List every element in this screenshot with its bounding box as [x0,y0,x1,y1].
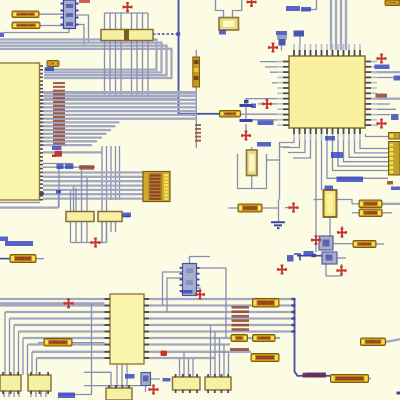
wire [9,319,11,376]
wire [0,202,40,204]
wire [329,217,331,236]
net label JTAG [337,177,364,183]
wire [151,378,161,380]
wire [4,312,6,375]
pin text [387,181,393,185]
wire [70,191,72,212]
crystal Y1 [219,18,239,31]
red text [79,0,90,3]
wire bus row [0,302,105,304]
wire [40,25,64,27]
wire [73,186,75,212]
transistor Q1 [319,236,333,250]
net label [276,31,287,35]
wire [119,146,121,200]
wire [81,170,83,212]
no-ERC marker X7 [377,119,385,127]
wire [126,364,128,388]
wire [115,13,117,95]
wire [179,0,220,114]
net label [0,385,10,390]
no-ERC marker X14 [64,299,72,307]
label N2 [231,335,248,342]
wire [81,222,83,243]
inductor L1 [220,111,241,118]
wire [167,278,183,312]
component A1 [61,0,79,29]
net label [56,190,61,194]
wire [36,258,44,260]
capacitor C2 [294,31,305,37]
junction red X15 [161,351,168,357]
wire [245,107,247,119]
wire [341,226,343,238]
wire [382,212,392,214]
resistor pack RP3 [66,212,94,222]
resistor R11 [193,57,200,87]
wire [241,113,284,115]
wire [223,345,225,378]
resistor R2 [12,22,40,29]
label N3 [253,335,276,342]
wire [345,0,347,50]
resistor R6 [359,200,382,208]
IC U1 [0,63,40,200]
net label XTAL [258,121,274,126]
resistor R4 [44,339,72,347]
wire [192,358,194,377]
no-ERC marker X12 [312,236,320,244]
wire bus row [150,317,295,319]
label N4 [251,354,279,362]
net label [219,30,226,35]
wire [366,134,389,137]
wire [163,272,183,306]
resistor pack RP1 [101,30,127,41]
wire [38,342,44,344]
wire [18,332,20,376]
wire bus L3 [0,46,167,75]
wire [197,288,201,299]
wire bus row [43,125,116,127]
wire [279,142,281,200]
wire [386,339,400,342]
wire [31,352,33,375]
wire [326,264,342,276]
wire bus row [43,121,120,123]
wire [338,134,389,166]
wire [278,200,280,222]
wire [43,163,73,165]
wire bus row [43,136,102,138]
pin numbers bus [195,124,201,142]
wire [299,37,301,57]
resistor R3 [10,255,36,263]
resistor R10 [331,375,369,383]
wire [295,299,331,376]
wire bus [44,97,178,99]
wire [314,199,324,201]
wire [120,13,122,95]
wire bus row [43,95,196,97]
no-ERC marker X1 [247,0,255,6]
wire [287,258,290,260]
wire [86,178,88,212]
label N5 [385,0,400,6]
wire [0,258,10,260]
net label [0,33,4,38]
wire bus row [150,343,230,345]
component B3 [106,385,132,400]
IC U3 [110,294,144,364]
wire [293,134,311,158]
wire [245,120,247,122]
wire bus row [43,151,102,153]
wire bus L1 [0,40,157,70]
wire [228,352,230,377]
wire [106,222,108,243]
wire bus row [23,337,105,339]
net label [163,378,171,382]
wire [30,391,32,397]
capacitor C4 [279,39,286,46]
component B4 [173,374,201,393]
wire [369,378,372,380]
wire [371,124,378,126]
wire [18,391,20,397]
crystal Y2 [247,150,258,176]
net label [5,241,33,246]
wire [245,124,247,132]
wire [27,345,29,376]
wire [302,0,317,10]
wire [371,103,390,105]
wire [115,146,117,200]
wire [297,255,322,257]
net name [303,373,326,378]
resistor R8 [353,241,376,248]
pin text [79,165,94,170]
wire [195,50,197,57]
capacitor C1 [240,104,253,107]
connector J2b [389,142,400,176]
wire bus row [43,106,196,108]
wire [352,203,359,205]
wire [288,134,305,153]
wire bus row [43,193,143,195]
wire [106,146,108,243]
wire [179,358,181,377]
net label [391,114,399,120]
wire [376,243,384,245]
label N6 [47,61,59,67]
wire bus row [5,311,105,313]
no-ERC marker X13 [337,266,345,274]
wire [371,114,390,116]
wire [115,222,117,233]
wire bus row [43,114,196,116]
wire bus row [14,324,105,326]
wire [122,216,130,218]
wire [190,257,211,264]
wire [104,13,106,95]
net label [394,76,400,81]
wire [91,303,93,385]
wire [71,242,107,244]
IC U1 pins [40,65,43,200]
wire [214,332,216,378]
wire [233,0,242,18]
resistor R9 [361,338,386,346]
junction dot [244,100,249,104]
wire [0,206,59,208]
resistor R1 [12,11,39,18]
wire [260,61,283,63]
IC U3 pins [105,298,150,359]
no-ERC marker X6 [242,131,250,139]
no-ERC marker X17 [149,385,157,393]
wire [285,207,291,209]
net label [325,136,335,141]
component QA [180,264,200,296]
wire bus L2 [0,43,162,73]
wire bus row [43,140,97,142]
wire [195,87,197,148]
wire [333,134,389,171]
wire bus [44,92,196,94]
wire [315,134,317,252]
wire [86,222,88,243]
junction dot [312,254,317,258]
net label [286,6,300,11]
wire [36,358,38,375]
wire [267,159,280,161]
wire [101,146,103,243]
net label [251,104,256,109]
net label [306,373,326,378]
wire [127,11,129,14]
junction red X8 [55,151,63,157]
net label [58,393,75,399]
pin numbers U1 [53,82,65,145]
capacitor C5 [324,190,337,217]
wire [245,99,247,104]
wire [335,0,337,50]
wire bus row [19,330,105,332]
label N1 [253,299,280,308]
wire [352,212,359,214]
junction dot [397,392,400,395]
wire [210,325,212,377]
transistor Q2 [322,252,337,264]
net label [52,146,62,150]
wire [251,147,253,150]
wire [355,134,389,153]
wire [219,338,221,377]
wire [344,134,389,162]
wire [337,200,353,204]
wire [76,25,85,46]
wire bus row [150,351,251,353]
wire bus row [37,357,105,359]
wire bus row [150,330,295,332]
wire [75,188,77,212]
component B1 [0,372,21,394]
net label [57,164,64,169]
wire [337,257,346,259]
wire bus row [43,99,196,101]
node junction [177,32,181,36]
pin numbers bus2 [232,306,250,331]
wire [75,222,77,243]
transistor Q3 [141,373,151,386]
net label BEEP [304,251,314,256]
wire bus row [150,311,295,313]
wire [13,325,15,375]
wire [3,391,5,397]
wire [13,391,15,397]
connector J2a [389,133,400,140]
wire [333,243,353,245]
wire bus row [10,317,105,319]
wire [70,222,72,243]
resistor pack RP2 [127,30,154,41]
wire [145,386,147,393]
wire bus row [32,351,105,353]
net label [65,164,74,169]
no-ERC marker X3 [269,43,277,51]
wire bus row [43,184,143,186]
no-ERC marker X5 [263,100,271,108]
wire bus row [43,133,107,135]
wire [294,254,300,261]
RP joint [124,30,129,40]
net label [301,7,311,12]
wire [58,192,60,208]
wire bus row [150,357,215,359]
net label [375,65,390,70]
wire [371,77,393,79]
no-ERC marker X9 [91,238,99,246]
wire [272,82,283,84]
no-ERC marker X18 [278,265,286,273]
wire [58,386,92,395]
net label [331,152,343,158]
no-ERC marker X10 [289,204,297,212]
wire [84,372,111,388]
wire [270,71,283,73]
wire [45,391,47,397]
no-ERC marker X2 [123,3,131,11]
component B5 [205,374,231,393]
wire [142,13,144,95]
wire [183,352,185,377]
wire [327,134,388,178]
wire [72,342,105,344]
wire [4,29,69,33]
wire [360,134,389,149]
junction dots [292,298,296,333]
wire bus row [150,324,295,326]
wire [340,0,342,50]
wire [131,13,133,95]
wire [246,98,283,100]
wire bus row [43,197,143,199]
component B2 [28,372,51,394]
component Q4 [287,255,294,262]
wire [153,33,177,35]
wire [258,103,283,105]
wire [283,134,300,148]
wire [371,61,377,63]
wire [382,203,400,205]
resistor pack RP4 [98,212,122,222]
wire bus row [150,298,295,300]
wire bus row [28,343,105,345]
connector J1 [143,172,170,202]
net label [125,374,135,379]
wire bus row [43,144,92,146]
wire [341,264,343,276]
wire bus row [43,129,111,131]
net label [391,187,400,191]
wire bus row [43,189,143,191]
wire [8,391,10,397]
IC U1 corner pin [39,192,43,195]
wire [84,385,141,387]
wire bus row [43,91,196,93]
wire [110,146,112,200]
IC U2 pins [277,44,377,140]
wire [265,66,283,68]
wire [330,0,332,50]
wire bus row [43,118,196,120]
wire [188,358,190,377]
wire bus row [43,180,143,182]
wire bus [44,95,196,97]
wire [22,338,24,375]
net label [0,237,8,242]
net label [182,290,193,294]
resistor R7 [359,209,382,217]
wire [116,364,118,388]
wire bus row [43,176,143,178]
wire ground [271,222,285,228]
no-ERC marker X16 [196,290,204,298]
net label [123,213,132,218]
wire [110,222,112,233]
wire [39,13,64,15]
no-ERC marker X4 [377,54,385,62]
wire [101,222,103,243]
resistor R5 [238,204,262,212]
wire [371,71,400,73]
wire [253,119,284,121]
pin text [376,94,388,98]
wire bus row [150,337,280,339]
wire [281,46,283,51]
net label [45,67,54,71]
wire [371,98,400,100]
IC U2 [289,56,365,128]
wire [136,13,138,95]
net label [325,186,334,190]
wire [229,207,239,209]
wire [238,154,267,189]
wire [321,134,323,190]
wire [197,268,227,338]
wire [35,391,37,397]
